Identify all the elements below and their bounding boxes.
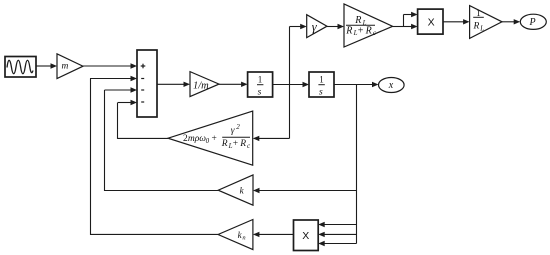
wire: branch node down to damping triangle input xyxy=(253,136,290,141)
svg-text:m: m xyxy=(62,62,69,72)
svg-text:+: + xyxy=(233,139,238,149)
damping gain 2m*rho*omega0 + gamma^2/(RL+Rc) xyxy=(168,111,253,165)
product X1 xyxy=(418,9,443,34)
svg-text:1: 1 xyxy=(476,8,481,18)
svg-text:R: R xyxy=(239,139,246,149)
svg-text:R: R xyxy=(365,25,372,36)
wire: product X2 to gain kn xyxy=(253,232,294,237)
svg-text:R: R xyxy=(221,139,228,149)
gain RL/(RL+Rc) xyxy=(344,4,393,47)
output port P xyxy=(520,14,546,29)
svg-text:P: P xyxy=(529,17,536,28)
svg-text:+: + xyxy=(358,25,364,36)
wire: gamma to gain RL/(RL+Rc) xyxy=(327,24,344,29)
wire: branch node to gamma gain and damping triangle (vertical) xyxy=(289,27,291,139)
wire: RL/(RL+Rc) to product X1 (split to both inputs) xyxy=(393,12,418,29)
svg-text:2: 2 xyxy=(236,123,240,131)
svg-text:X: X xyxy=(302,230,309,242)
wire: gain m to sum input 1 xyxy=(83,63,137,68)
wire: gain k output to sum input 3 xyxy=(105,87,219,191)
wire: damping triangle output to sum input 4 xyxy=(118,100,169,139)
svg-text:1: 1 xyxy=(319,74,324,84)
sum block xyxy=(137,50,157,117)
output port x xyxy=(379,78,405,93)
wire: integrator 1 to integrator 2 (junction at x=289.4) xyxy=(273,82,309,87)
integrator 1/s #1 xyxy=(248,72,273,97)
svg-text:1/m: 1/m xyxy=(193,80,209,91)
svg-text:L: L xyxy=(479,26,484,33)
gain 1/RL xyxy=(470,6,502,39)
wire: gain kn output to sum input 2 xyxy=(90,76,218,235)
svg-text:γ: γ xyxy=(231,126,235,136)
svg-text:1: 1 xyxy=(258,74,263,84)
wire: product X1 to gain 1/RL xyxy=(443,19,470,24)
svg-text:R: R xyxy=(473,22,480,32)
signal generator source block xyxy=(5,57,36,78)
svg-text:s: s xyxy=(258,87,262,97)
svg-text:s: s xyxy=(319,87,323,97)
svg-text:mρω: mρω xyxy=(188,134,206,144)
wire: branch to gain gamma xyxy=(290,24,307,29)
wire: x branch to gain k xyxy=(253,188,357,193)
gain k xyxy=(218,175,253,205)
integrator 1/s #2 xyxy=(309,72,334,97)
gain m xyxy=(57,54,83,79)
wire: x branch to product X2 input 3 xyxy=(318,241,356,246)
product X2 xyxy=(294,220,319,251)
svg-text:n: n xyxy=(242,235,245,242)
wire: integrator 2 to output x (branch at x=356.5) xyxy=(334,82,379,87)
wire: gain 1/m to integrator 1 xyxy=(219,82,248,87)
svg-text:0: 0 xyxy=(206,137,210,145)
wire: sum output to gain 1/m xyxy=(157,82,190,87)
wire: x branch to product X2 input 2 xyxy=(318,232,356,237)
svg-text:x: x xyxy=(388,80,394,91)
svg-text:X: X xyxy=(428,16,435,28)
wire: x signal branch down (vertical at x=356.5) xyxy=(356,85,358,244)
gain kn xyxy=(218,220,253,250)
svg-text:+: + xyxy=(212,134,217,144)
wire: gain 1/RL to output P xyxy=(502,19,520,24)
svg-text:R: R xyxy=(345,25,352,36)
wire: source to gain m xyxy=(36,63,57,68)
gain gamma xyxy=(307,15,327,38)
gain 1/m xyxy=(190,72,219,97)
wire: x branch to product X2 input 1 xyxy=(318,222,356,227)
